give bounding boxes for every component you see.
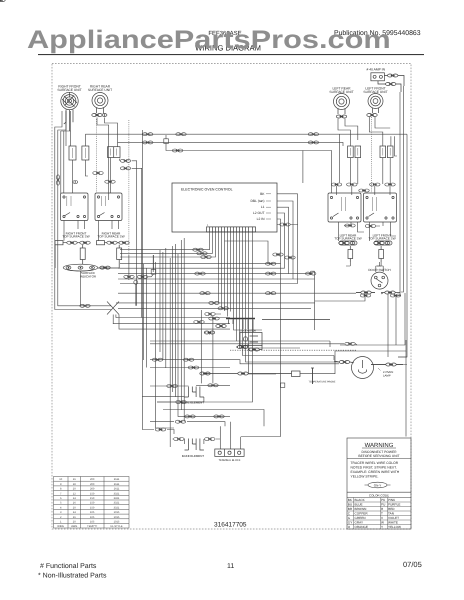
oven terminal block bbox=[215, 449, 244, 462]
connector pair under LF unit bbox=[367, 114, 377, 117]
wire: right mid bus b bbox=[241, 264, 281, 437]
connector mid left b bbox=[73, 181, 78, 184]
wire: 40A feed lower bbox=[378, 81, 401, 92]
connector pair 40A upper bbox=[388, 74, 398, 77]
wire: RF leads into limiter bbox=[66, 111, 71, 146]
connector mid left c bbox=[105, 180, 115, 183]
svg-text:# Functional Parts: # Functional Parts bbox=[40, 562, 97, 570]
connector X row bbox=[80, 304, 90, 307]
wire: strip drop 6 bbox=[237, 232, 331, 348]
connector trunk A1 bbox=[143, 133, 153, 136]
wire: LR switch bottom drops bbox=[339, 222, 365, 241]
switch box: right front top surface sw bbox=[61, 193, 89, 221]
connector pair under RR unit bbox=[92, 114, 102, 117]
svg-text:TOP SURFACE SW: TOP SURFACE SW bbox=[97, 235, 124, 239]
connector door lower left bbox=[360, 294, 370, 297]
pigtail resistor LR bbox=[348, 246, 353, 262]
svg-text:PURPLE: PURPLE bbox=[388, 503, 400, 507]
warning information box bbox=[347, 438, 411, 529]
svg-text:WHITE: WHITE bbox=[388, 521, 398, 525]
EOC bottom pin header bbox=[207, 224, 256, 232]
svg-text:VIOLET: VIOLET bbox=[388, 516, 399, 520]
junction block top bbox=[164, 139, 169, 144]
wire: lock region stubs bbox=[204, 314, 221, 335]
svg-text:WIRE: WIRE bbox=[57, 525, 64, 528]
connector trunk C2 bbox=[200, 292, 210, 295]
wire: 40A feed upper bbox=[384, 76, 404, 87]
thermal limiter pair LF bbox=[380, 146, 393, 158]
surface indicator light oval bbox=[63, 264, 110, 278]
svg-text:COLOR CODE: COLOR CODE bbox=[369, 493, 389, 497]
svg-text:TEMPERATURE PROBE: TEMPERATURE PROBE bbox=[309, 381, 336, 384]
svg-text:2611: 2611 bbox=[114, 483, 120, 486]
tracer wire example symbol bbox=[365, 482, 391, 488]
connector trunk D bbox=[209, 301, 219, 304]
svg-text:105: 105 bbox=[90, 511, 95, 514]
wire: dashed cavity line bbox=[230, 349, 357, 351]
svg-text:LAMP: LAMP bbox=[383, 373, 391, 377]
bake element bbox=[182, 439, 204, 459]
wire: bottom-left vertical pair bbox=[113, 318, 117, 325]
svg-text:2611: 2611 bbox=[114, 478, 120, 481]
connector LF sw bottom bbox=[365, 225, 375, 228]
wire: dashed tracer LF to switch bbox=[370, 117, 372, 193]
wire: trunk E bbox=[118, 307, 311, 309]
pigtail resistor LF bbox=[379, 246, 384, 262]
svg-text:1015: 1015 bbox=[114, 520, 120, 523]
wire: strip drop 5 lock feeds bbox=[225, 232, 263, 330]
connector junction bbox=[172, 149, 182, 152]
svg-text:INDICATOR: INDICATOR bbox=[80, 274, 97, 278]
svg-text:DOOR SWITCH: DOOR SWITCH bbox=[368, 268, 390, 272]
wire: X down bundle bbox=[113, 315, 230, 330]
svg-text:3321: 3321 bbox=[114, 497, 120, 500]
svg-text:DBL (tan): DBL (tan) bbox=[251, 199, 265, 203]
wire: junction drop to EOC bbox=[166, 143, 332, 193]
wire: mid vertical field bbox=[144, 238, 185, 422]
connector lock a bbox=[205, 313, 215, 316]
wire: RR leads to limiter bbox=[97, 118, 118, 201]
heater coil: left rear surface unit bbox=[329, 86, 353, 109]
header rule bbox=[38, 54, 424, 55]
svg-text:GN-Y: GN-Y bbox=[374, 483, 382, 487]
svg-text:1015: 1015 bbox=[114, 511, 120, 514]
svg-text:ORANGE: ORANGE bbox=[355, 525, 368, 529]
connector above LR switch 2 bbox=[347, 183, 357, 186]
svg-text:L1: L1 bbox=[261, 205, 265, 209]
connector trunk C bbox=[266, 292, 276, 295]
connector mid left a bbox=[93, 172, 103, 175]
wire: left X junction lines bbox=[107, 302, 119, 315]
svg-text:200: 200 bbox=[90, 483, 95, 486]
svg-text:150: 150 bbox=[90, 502, 95, 505]
connector row RR sw bbox=[97, 241, 130, 245]
svg-text:BROIL ELEMENT: BROIL ELEMENT bbox=[181, 400, 204, 404]
svg-text:BAKE ELEMENT: BAKE ELEMENT bbox=[182, 454, 204, 458]
label LF top surface sw bbox=[368, 234, 395, 241]
switch box: right rear top surface sw bbox=[95, 193, 122, 221]
connector bake rows bbox=[152, 358, 224, 440]
svg-text:BEFORE SERVICING UNIT: BEFORE SERVICING UNIT bbox=[358, 454, 399, 458]
diagram dashed border bbox=[52, 64, 411, 530]
electronic oven control board bbox=[172, 183, 277, 232]
wire: limiter RF bottoms to switch box bbox=[73, 134, 89, 193]
svg-text:SURFACE UNIT: SURFACE UNIT bbox=[363, 90, 387, 94]
door switch bbox=[368, 268, 390, 289]
node square probe bbox=[280, 383, 284, 387]
svg-text:150: 150 bbox=[90, 506, 95, 509]
svg-text:1015: 1015 bbox=[114, 516, 120, 519]
connector row RF sw bbox=[55, 241, 90, 268]
connector door lower right bbox=[390, 294, 400, 297]
connector pair door sw left bbox=[356, 291, 375, 294]
wire: trunk top A bbox=[85, 134, 407, 357]
connector broil right bbox=[176, 401, 186, 404]
wire: pigtail resistor drops right bbox=[346, 262, 381, 266]
svg-text:GY: GY bbox=[348, 521, 352, 525]
connector bake row2 bbox=[205, 438, 215, 441]
connector cavity line bbox=[345, 342, 355, 345]
connector pair under LR unit bbox=[336, 115, 346, 118]
wire: node drops bbox=[129, 255, 136, 306]
watermark AppliancePartsPros.com bbox=[27, 26, 391, 54]
svg-text:Y: Y bbox=[381, 525, 383, 529]
wire: strip drop 4 bbox=[219, 232, 269, 308]
connector pair door sw right bbox=[381, 291, 400, 294]
connector lock b bbox=[194, 321, 204, 324]
switch box: left rear top surface sw bbox=[328, 193, 361, 222]
svg-text:BROWN: BROWN bbox=[355, 507, 367, 511]
wire: EOC pin L2IN bbox=[120, 219, 281, 264]
connector L2IN row bbox=[266, 262, 276, 265]
svg-text:LOCK MOTOR: LOCK MOTOR bbox=[240, 330, 256, 333]
connector lamp right bbox=[371, 363, 403, 366]
pigtail resistor RF bbox=[80, 245, 85, 264]
svg-text:07/05: 07/05 bbox=[403, 560, 422, 569]
oven temperature probe bbox=[200, 368, 336, 384]
wire: LF coil leads to limiter bbox=[369, 117, 391, 146]
wire: dashed tracer RR to switch bbox=[96, 119, 98, 193]
label RF top surface sw bbox=[62, 231, 89, 238]
connector left column vertical bbox=[57, 175, 60, 185]
wire: EOC pin DBL bbox=[118, 201, 293, 279]
wire: LF switch bottom drops bbox=[370, 222, 397, 241]
wire: LR coil leads to limiter bbox=[338, 119, 358, 183]
connector row LF sw bbox=[374, 241, 392, 245]
svg-text:NOTED FIRST, STRIPE NEXT.: NOTED FIRST, STRIPE NEXT. bbox=[351, 465, 397, 469]
svg-text:BR: BR bbox=[348, 507, 353, 511]
svg-text:316417705: 316417705 bbox=[214, 522, 247, 529]
wire: 40A block to right bus bbox=[398, 86, 404, 296]
wire: LF unit leads bbox=[373, 108, 379, 113]
label LR top surface sw bbox=[334, 234, 361, 241]
wire: strip drop 3 bbox=[120, 232, 216, 257]
connector row LR sw bbox=[339, 241, 357, 245]
svg-text:T: T bbox=[381, 512, 383, 516]
svg-text:TOP SURFACE SW: TOP SURFACE SW bbox=[334, 237, 361, 241]
svg-text:UL STYLE: UL STYLE bbox=[110, 525, 122, 528]
connector strip1 bbox=[193, 248, 203, 251]
connector L1 row b bbox=[306, 272, 316, 275]
wire: long trunk door switch left bbox=[118, 292, 361, 295]
svg-text:PU: PU bbox=[381, 503, 385, 507]
wire: node link bbox=[148, 255, 154, 277]
connector lock c bbox=[209, 317, 219, 320]
connector EOC-switch link bbox=[280, 223, 290, 226]
connector lamp trunk b bbox=[188, 366, 198, 369]
connector strip nest a bbox=[273, 253, 283, 256]
wire: strip drop 1 bbox=[120, 232, 210, 250]
svg-text:105: 105 bbox=[90, 516, 95, 519]
broil element bbox=[181, 387, 204, 405]
pigtail resistor RR bbox=[98, 245, 122, 268]
svg-text:L2 OUT: L2 OUT bbox=[253, 211, 265, 215]
thermal limiter pair LR bbox=[348, 146, 361, 158]
svg-text:150: 150 bbox=[90, 492, 95, 495]
node square mid bbox=[151, 270, 156, 275]
thermal limiter pair RF bbox=[69, 146, 89, 160]
wire: EOC pin BK bbox=[120, 194, 298, 284]
terminal block 40 AMP IN bbox=[367, 68, 386, 81]
svg-text:150: 150 bbox=[90, 497, 95, 500]
svg-text:ELECTRONIC OVEN CONTROL: ELECTRONIC OVEN CONTROL bbox=[181, 188, 233, 192]
wire: LF limiter bottoms to switch bbox=[383, 136, 397, 184]
wire: EOC pin L1 bbox=[118, 207, 289, 273]
svg-text:200: 200 bbox=[90, 478, 95, 481]
connector lamp left bbox=[334, 361, 353, 364]
connector node a bbox=[124, 275, 134, 278]
svg-text:200: 200 bbox=[90, 488, 95, 491]
wire: dashed tracer mid column bbox=[128, 120, 130, 255]
wire: mid vertical bundle bbox=[156, 254, 231, 447]
wire: LR limiter bottoms to switch bbox=[350, 158, 357, 184]
connector broil left bbox=[167, 385, 177, 388]
svg-text:L2 IN: L2 IN bbox=[257, 217, 265, 221]
connector above LR switch 1 bbox=[331, 183, 341, 186]
svg-text:TEMP°C: TEMP°C bbox=[87, 525, 97, 528]
wire: lamp trunk bbox=[150, 360, 339, 368]
connector trunk A2 bbox=[176, 133, 186, 136]
connector trunk A3 bbox=[308, 133, 318, 136]
connector LR sw bottom bbox=[345, 224, 355, 227]
connector broil top right bbox=[208, 384, 218, 387]
connector pair 40A lower bbox=[386, 83, 396, 86]
wire: door switch drops bbox=[315, 262, 401, 301]
svg-text:YELLOW: YELLOW bbox=[388, 525, 401, 529]
connector node b bbox=[137, 275, 147, 278]
wire: strip drop 2 bbox=[120, 232, 213, 253]
svg-text:SURFACE UNIT: SURFACE UNIT bbox=[329, 90, 353, 94]
wire: RR unit leads bbox=[97, 108, 104, 113]
svg-text:SURFACE UNIT: SURFACE UNIT bbox=[57, 88, 81, 92]
svg-text:TOP SURFACE SW: TOP SURFACE SW bbox=[368, 237, 395, 241]
wire: probe feed bbox=[271, 340, 406, 384]
svg-text:SURFACE UNIT: SURFACE UNIT bbox=[88, 88, 112, 92]
svg-text:3321: 3321 bbox=[114, 502, 120, 505]
svg-text:EXAMPLE: GREEN WIRE WITH: EXAMPLE: GREEN WIRE WITH bbox=[351, 470, 400, 474]
door lock motor assembly bbox=[204, 319, 330, 352]
connector lamp trunk a bbox=[184, 358, 194, 361]
connector strip3 bbox=[201, 256, 211, 259]
svg-text:GRAY: GRAY bbox=[355, 521, 364, 525]
wire: oval indicator drops bbox=[80, 271, 82, 306]
connector trunk E bbox=[218, 307, 228, 310]
svg-text:COPPER: COPPER bbox=[355, 512, 369, 516]
wire: EOC-switch link bbox=[277, 224, 298, 226]
connector trunk B1 bbox=[143, 141, 153, 144]
wire: broil feeds bbox=[150, 341, 237, 402]
svg-text:BU: BU bbox=[348, 503, 352, 507]
oven lamp bbox=[352, 357, 394, 379]
svg-text:TRACER WIREL WIRE COLOR: TRACER WIREL WIRE COLOR bbox=[351, 461, 399, 465]
svg-text:BLUE: BLUE bbox=[355, 503, 363, 507]
svg-text:BLACK: BLACK bbox=[355, 498, 366, 502]
node circle mid bbox=[134, 280, 138, 284]
svg-text:AppliancePartsPros.com: AppliancePartsPros.com bbox=[27, 26, 391, 54]
heater coil: right rear surface unit bbox=[88, 85, 112, 109]
wire: lamp feeds bbox=[330, 341, 407, 365]
wire: limiter RR bottoms bbox=[111, 142, 142, 317]
svg-text:AWG: AWG bbox=[71, 525, 77, 528]
label RR top surface sw bbox=[97, 231, 124, 238]
svg-text:2611: 2611 bbox=[114, 488, 120, 491]
svg-text:TAN: TAN bbox=[388, 512, 394, 516]
connector strip2 bbox=[197, 252, 207, 255]
svg-text:YELLOW STRIPE.: YELLOW STRIPE. bbox=[351, 474, 379, 478]
wire: RF coil lead left drop bbox=[55, 111, 111, 310]
wire: cavity feed bbox=[230, 344, 357, 345]
wire: right mid bus a bbox=[289, 271, 315, 330]
svg-text:3321: 3321 bbox=[114, 506, 120, 509]
wire: EOC pin L2OUT bbox=[118, 213, 285, 268]
heater coil: right front surface unit bbox=[57, 85, 81, 110]
wire gauge table bbox=[54, 477, 130, 529]
heater coil: left front surface unit bbox=[363, 86, 387, 108]
wire: strip drop 7 bbox=[243, 232, 340, 362]
wire: door-lamp link bbox=[340, 293, 405, 357]
thermal limiter pair RR bbox=[108, 147, 121, 158]
wire: bake feeds bbox=[142, 130, 241, 449]
connector L1 row a bbox=[266, 272, 276, 275]
svg-text:3321: 3321 bbox=[114, 492, 120, 495]
svg-text:RED: RED bbox=[388, 507, 395, 511]
wire: left box bottom drops bbox=[64, 221, 119, 241]
wire: trunk lamp left bbox=[116, 302, 315, 304]
wire: strip drop 8 bbox=[157, 232, 271, 402]
switch box: left front top surface sw bbox=[364, 193, 397, 222]
svg-text:* Non-Illustrated Parts: * Non-Illustrated Parts bbox=[38, 572, 107, 580]
svg-text:W: W bbox=[381, 521, 384, 525]
svg-text:11: 11 bbox=[227, 563, 234, 570]
svg-text:TOP SURFACE SW: TOP SURFACE SW bbox=[62, 235, 89, 239]
svg-text:# 40 AMP IN: # 40 AMP IN bbox=[367, 68, 386, 72]
wire: connectors into switch tops bbox=[337, 186, 391, 195]
connector above LF switch 2 bbox=[385, 183, 395, 186]
wire: LR unit leads bbox=[338, 109, 345, 114]
connector between switches bbox=[359, 189, 369, 192]
connector L1 row c bbox=[195, 272, 205, 275]
connector trunk B2 bbox=[308, 141, 318, 144]
wire: trunk top B bbox=[118, 135, 344, 146]
wire: RF unit leads bbox=[64, 110, 73, 132]
connector above LF switch 1 bbox=[370, 183, 380, 186]
svg-text:105: 105 bbox=[90, 520, 95, 523]
svg-text:TERMINAL BLOCK: TERMINAL BLOCK bbox=[219, 459, 241, 462]
svg-text:GREEN: GREEN bbox=[355, 516, 366, 520]
connector strip nest b bbox=[285, 256, 295, 259]
svg-text:PINK: PINK bbox=[388, 498, 396, 502]
